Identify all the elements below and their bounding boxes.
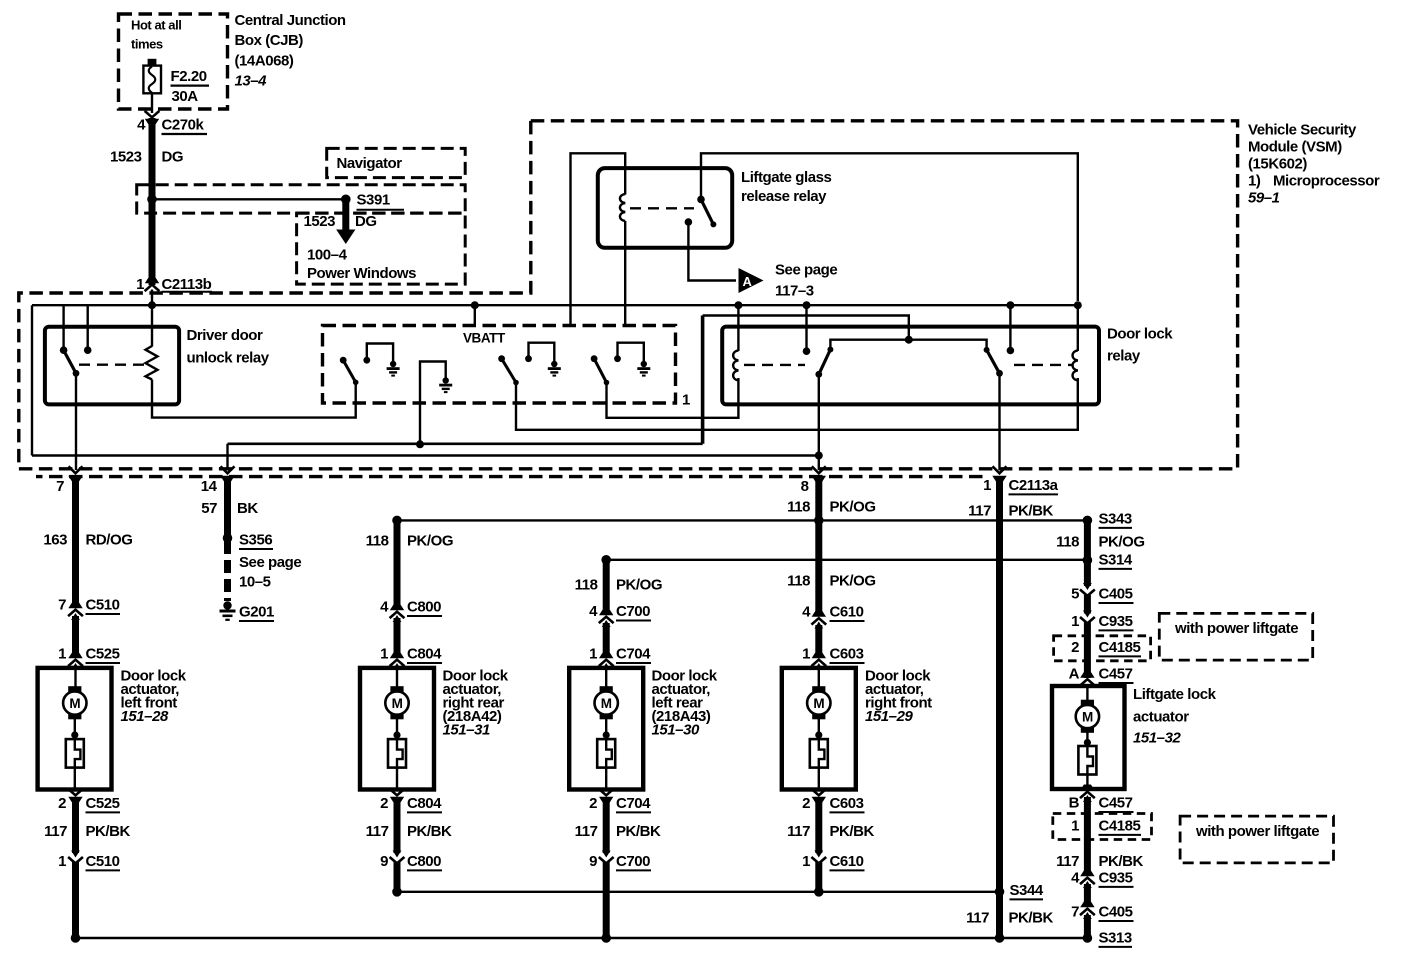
svg-text:A: A	[743, 274, 753, 289]
node common contact	[685, 218, 693, 226]
node junction blade link	[905, 336, 913, 344]
svg-text:PK/BK: PK/BK	[1099, 853, 1144, 870]
node junction col3 tap	[601, 555, 611, 565]
wire 57 BK	[224, 479, 231, 536]
svg-text:C804: C804	[407, 795, 442, 812]
svg-text:9: 9	[589, 853, 597, 870]
svg-text:C935: C935	[1099, 613, 1133, 630]
motor M right rear	[385, 686, 408, 719]
svg-text:C2113b: C2113b	[162, 276, 212, 293]
coil of liftgate relay	[620, 194, 625, 221]
actuator box liftgate	[1052, 686, 1125, 789]
svg-text:1: 1	[380, 646, 388, 663]
svg-text:DG: DG	[355, 213, 377, 230]
svg-text:Power Windows: Power Windows	[307, 265, 416, 282]
svg-text:1: 1	[802, 646, 810, 663]
svg-text:S343: S343	[1099, 511, 1132, 528]
pin 14 exit arrow	[220, 466, 234, 481]
motor M left rear	[595, 686, 618, 719]
wire blade top link	[830, 340, 986, 350]
wire internal bus line B	[32, 454, 819, 456]
svg-text:2: 2	[1071, 639, 1079, 656]
svg-text:C610: C610	[830, 853, 864, 870]
wire breaker to box bottom	[605, 768, 607, 788]
dashed option box lower	[297, 213, 466, 284]
svg-text:118: 118	[787, 499, 810, 516]
svg-text:117: 117	[1056, 853, 1079, 870]
relay Liftgate glass release relay box	[598, 168, 732, 248]
svg-text:151–29: 151–29	[865, 708, 913, 725]
svg-text:C525: C525	[86, 795, 120, 812]
ground symbol 3	[637, 361, 650, 377]
label with power liftgate upper	[1159, 613, 1312, 660]
node junction mid return bus	[392, 887, 402, 897]
svg-text:C4185: C4185	[1099, 818, 1141, 835]
ground hook 3	[614, 343, 644, 362]
motor M right front	[807, 686, 830, 719]
svg-text:59–1: 59–1	[1248, 190, 1280, 207]
svg-text:8: 8	[801, 478, 809, 495]
svg-text:117: 117	[44, 823, 67, 840]
node junction on bus A	[1074, 301, 1082, 309]
svg-text:1: 1	[802, 853, 810, 870]
wire C405 to C935	[1084, 595, 1091, 614]
svg-text:PK/BK: PK/BK	[1009, 910, 1054, 927]
dashed option box upper	[137, 185, 466, 213]
wire into VSM to relay coil	[151, 290, 153, 347]
fuse F2.20 30A	[143, 59, 161, 94]
label Central Junction Box (CJB) (14A068) 13-4	[235, 12, 346, 90]
svg-text:1: 1	[589, 646, 597, 663]
svg-text:14: 14	[201, 478, 218, 495]
switch blade of driver relay	[64, 350, 76, 373]
wire coil bottom to VBATT	[624, 221, 626, 326]
svg-text:B: B	[1069, 795, 1080, 812]
wire S314 to C405	[1084, 560, 1091, 586]
wire common contact to page arrow	[688, 222, 736, 281]
motor M left front	[63, 686, 86, 719]
wire right stub contact	[1009, 305, 1011, 350]
svg-text:4: 4	[380, 599, 389, 616]
svg-text:PK/OG: PK/OG	[830, 573, 876, 590]
connector C804 lower	[390, 789, 405, 803]
wire VBATT switch 2 to door relay right coil	[516, 378, 1078, 430]
svg-text:1: 1	[58, 646, 66, 663]
coil left of door relay	[733, 350, 738, 380]
svg-text:C510: C510	[86, 597, 120, 614]
splice S313	[1083, 933, 1093, 943]
label Vehicle Security Module (VSM) (15K602) 1) Microprocessor 59-1	[1248, 122, 1380, 207]
svg-text:151–32: 151–32	[1133, 730, 1181, 747]
svg-text:57: 57	[201, 500, 217, 517]
wire breaker to box bottom	[1086, 775, 1088, 788]
wire 118 PK/OG col3	[603, 560, 610, 614]
svg-text:BK: BK	[237, 500, 258, 517]
svg-text:S313: S313	[1099, 930, 1132, 947]
wire 117 PK/BK col4	[815, 797, 822, 853]
svg-text:actuator: actuator	[1133, 709, 1189, 726]
relay Door lock relay box	[722, 327, 1099, 405]
wire unlock feed riser	[703, 316, 909, 340]
wire to return bus	[72, 862, 79, 938]
svg-text:1523: 1523	[110, 149, 142, 166]
svg-text:VBATT: VBATT	[463, 331, 506, 346]
svg-text:117: 117	[575, 823, 598, 840]
wire motor to breaker	[396, 717, 398, 739]
wire C935 to C457	[1084, 622, 1091, 678]
wire ground bus to pin 14	[228, 442, 703, 445]
connector C603 lower	[811, 789, 826, 803]
connector C603	[811, 653, 826, 671]
svg-text:G201: G201	[239, 604, 274, 621]
Navigator dashed box	[327, 148, 466, 177]
svg-text:C804: C804	[407, 646, 442, 663]
splice S391	[341, 195, 351, 205]
svg-text:Navigator: Navigator	[337, 155, 403, 172]
svg-text:118: 118	[366, 533, 389, 550]
wire lock feed rail lower	[606, 559, 1087, 561]
node stub contact	[803, 347, 811, 355]
motor M liftgate	[1076, 700, 1099, 733]
wire contact stub 2	[86, 305, 88, 350]
svg-text:5: 5	[1071, 586, 1079, 603]
wire to mid return bus	[815, 862, 822, 892]
wire relay switch to right coil feed	[701, 153, 1078, 301]
svg-text:Central Junction: Central Junction	[235, 12, 346, 29]
wire VBATT switch 3 to door relay left coil	[607, 378, 739, 418]
svg-text:PK/BK: PK/BK	[830, 823, 875, 840]
svg-text:C525: C525	[86, 646, 120, 663]
node stub contact	[1007, 347, 1015, 355]
node junction VBATT stub	[471, 301, 479, 309]
VBATT dashed box	[323, 326, 676, 404]
svg-text:C405: C405	[1099, 904, 1133, 921]
connector C270k	[145, 111, 160, 125]
svg-text:117–3: 117–3	[775, 283, 814, 300]
node contacts of driver relay switch	[60, 346, 68, 354]
switch 1 in VBATT	[340, 357, 359, 385]
svg-text:Liftgate glass: Liftgate glass	[741, 169, 831, 186]
connector C405	[1080, 583, 1095, 596]
svg-text:C270k: C270k	[162, 117, 205, 134]
svg-text:C603: C603	[830, 646, 864, 663]
wire contact stub 1	[62, 305, 64, 350]
wire C700 to C704	[603, 623, 610, 657]
wire stub to VBATT box	[474, 305, 476, 325]
wire lock feed rail upper	[397, 519, 1087, 521]
svg-text:1: 1	[136, 276, 144, 293]
svg-text:2: 2	[58, 795, 66, 812]
svg-text:Module (VSM): Module (VSM)	[1248, 139, 1342, 156]
svg-text:PK/OG: PK/OG	[1099, 534, 1145, 551]
svg-text:Door lock: Door lock	[1107, 326, 1173, 343]
svg-text:See page: See page	[775, 262, 837, 279]
svg-text:release relay: release relay	[741, 188, 827, 205]
wire 163 RD/OG	[72, 479, 79, 607]
wire pin 1 drop	[998, 373, 1000, 470]
node junction at S391 tap	[147, 195, 157, 205]
wire 118 PK/OG liftgate	[1084, 520, 1091, 560]
VSM lower dashed border second row	[36, 475, 988, 478]
svg-text:S391: S391	[357, 192, 390, 209]
wire C510 to C525	[72, 616, 79, 657]
wire C610 to C603	[815, 625, 822, 657]
svg-text:117: 117	[966, 910, 989, 927]
node junction on bus A	[803, 301, 811, 309]
node junction on bus A	[1006, 301, 1014, 309]
svg-text:4: 4	[1071, 870, 1080, 887]
node junction bus B to pin 8	[815, 452, 823, 460]
svg-text:117: 117	[366, 823, 389, 840]
actuator box right rear	[360, 668, 434, 790]
circuit breaker left front	[66, 739, 84, 768]
svg-text:163: 163	[43, 532, 67, 549]
splice S344	[995, 887, 1005, 897]
svg-text:C610: C610	[830, 604, 864, 621]
svg-text:2: 2	[589, 795, 597, 812]
connector C525	[68, 653, 83, 671]
wire breaker to box bottom	[74, 768, 76, 788]
resistor coil of driver relay	[146, 346, 158, 380]
wire to splice S313	[1084, 915, 1091, 938]
wire left coil top	[737, 305, 739, 351]
coil right of door relay	[1073, 350, 1078, 380]
svg-text:7: 7	[1071, 904, 1079, 921]
wire right coil top	[1077, 305, 1079, 351]
svg-text:2: 2	[380, 795, 388, 812]
wire 117 PK/BK	[72, 797, 79, 853]
svg-text:C457: C457	[1099, 666, 1133, 683]
circuit breaker right rear	[388, 739, 406, 768]
label with power liftgate lower	[1180, 816, 1333, 863]
pin 7 exit arrow	[68, 466, 82, 481]
label Door lock actuator right rear (218A42) 151-31	[443, 668, 509, 739]
svg-text:100–4: 100–4	[307, 247, 348, 264]
Vehicle Security Module dashed outline	[19, 121, 1238, 469]
splice S314	[1083, 555, 1093, 565]
node junction lock distribution	[814, 516, 824, 526]
wire 117 PK/BK trunk	[996, 479, 1003, 938]
ground symbol 1	[387, 361, 400, 377]
svg-text:See page: See page	[239, 554, 301, 571]
svg-text:times: times	[131, 37, 163, 52]
svg-text:4: 4	[589, 603, 598, 620]
svg-text:S314: S314	[1099, 552, 1133, 569]
connector C800 lower	[390, 851, 405, 864]
svg-text:C800: C800	[407, 853, 441, 870]
svg-text:117: 117	[968, 503, 991, 520]
wire C800 to C804	[394, 618, 401, 657]
wire 118 PK/OG trunk	[815, 479, 822, 614]
wire internal bus line A	[32, 304, 1078, 306]
actuation dashed link	[630, 207, 694, 209]
connector C4185 dashed box lower	[1053, 814, 1152, 840]
wire motor to breaker	[818, 717, 820, 739]
node A page reference arrow	[739, 268, 764, 293]
connector C510 lower	[68, 851, 83, 864]
svg-text:C4185: C4185	[1099, 639, 1141, 656]
switch 3 in VBATT	[591, 355, 610, 385]
node junction trunk to return bus	[995, 933, 1005, 943]
svg-text:4: 4	[137, 117, 146, 134]
svg-text:9: 9	[380, 853, 388, 870]
wire motor to breaker	[1086, 731, 1088, 747]
svg-text:DG: DG	[162, 149, 184, 166]
connector C800	[390, 605, 405, 623]
svg-text:C700: C700	[616, 603, 650, 620]
wire fuse to connector C270k	[151, 93, 153, 113]
connector C405 lower	[1080, 902, 1095, 920]
label Door lock actuator left rear (218A43) 151-30	[652, 668, 718, 739]
node junction mid return bus	[814, 887, 824, 897]
label Liftgate lock actuator 151-32	[1133, 686, 1217, 747]
wire coil bottom to VBATT switch 1	[152, 380, 356, 418]
label Door lock actuator left front 151-28	[121, 668, 187, 726]
svg-text:13–4: 13–4	[235, 72, 268, 89]
svg-text:2: 2	[802, 795, 810, 812]
wire bold drop to ground bus	[701, 316, 705, 444]
node switch fixed contact	[697, 196, 705, 204]
svg-text:C510: C510	[86, 853, 120, 870]
node junction return bus	[601, 933, 611, 943]
connector C610 lower	[811, 851, 826, 864]
svg-text:PK/BK: PK/BK	[1009, 503, 1054, 520]
connector C525 lower	[68, 789, 83, 803]
svg-text:S344: S344	[1010, 882, 1044, 899]
svg-text:with power liftgate: with power liftgate	[1195, 823, 1319, 840]
wire into actuator	[74, 665, 76, 687]
wire into actuator	[605, 665, 607, 687]
node junction col2 tap	[392, 516, 402, 526]
switch blade of liftgate relay	[701, 199, 713, 224]
svg-text:1: 1	[682, 392, 690, 409]
svg-text:118: 118	[575, 577, 598, 594]
Central Junction Box dashed outline	[119, 14, 228, 109]
svg-text:(14A068): (14A068)	[235, 52, 294, 69]
connector C457 pin A	[1080, 672, 1095, 686]
svg-text:relay: relay	[1107, 348, 1141, 365]
svg-text:10–5: 10–5	[239, 574, 271, 591]
svg-text:30A: 30A	[172, 88, 199, 105]
connector C804	[390, 653, 405, 671]
circuit breaker left rear	[597, 739, 615, 768]
connector C457 pin B	[1080, 785, 1095, 803]
svg-text:PK/OG: PK/OG	[616, 577, 662, 594]
wire to pin 7	[75, 373, 77, 470]
wire breaker to box bottom	[818, 768, 820, 788]
wire 117 PK/BK col3	[603, 797, 610, 853]
svg-text:118: 118	[1056, 534, 1079, 551]
svg-text:C457: C457	[1099, 795, 1133, 812]
svg-text:Hot at all: Hot at all	[131, 18, 181, 33]
connector C2113b	[145, 278, 160, 292]
svg-text:F2.20: F2.20	[171, 68, 207, 85]
pin 1 exit arrow	[992, 466, 1006, 481]
wire 118 PK/OG col2	[394, 520, 401, 609]
svg-text:1523: 1523	[304, 213, 336, 230]
wire into actuator	[818, 665, 820, 687]
wire motor to breaker	[74, 717, 76, 739]
svg-text:PK/BK: PK/BK	[86, 823, 131, 840]
wire internal left drop	[31, 305, 33, 455]
switch 2 in VBATT	[498, 355, 519, 385]
connector C935 lower	[1080, 871, 1095, 889]
svg-text:1: 1	[58, 853, 66, 870]
actuation dashed link right	[1014, 364, 1072, 366]
svg-text:1: 1	[1071, 613, 1079, 630]
svg-text:1: 1	[1071, 818, 1079, 835]
splice S356	[223, 533, 233, 543]
svg-text:(15K602): (15K602)	[1248, 156, 1307, 173]
svg-text:A: A	[1069, 666, 1080, 683]
ground G201	[220, 601, 236, 621]
wire return bus	[76, 937, 1088, 939]
svg-text:1): 1)	[1248, 173, 1261, 190]
ground symbol module	[439, 377, 452, 393]
svg-text:117: 117	[787, 823, 810, 840]
svg-text:C700: C700	[616, 853, 650, 870]
svg-text:151–30: 151–30	[652, 722, 700, 739]
svg-text:Driver door: Driver door	[187, 327, 264, 344]
svg-text:PK/BK: PK/BK	[407, 823, 452, 840]
wire into actuator	[1086, 684, 1088, 701]
connector C700 lower	[599, 851, 614, 864]
wire breaker to box bottom	[396, 768, 398, 788]
svg-text:7: 7	[58, 597, 66, 614]
svg-text:Microprocessor: Microprocessor	[1273, 173, 1380, 190]
svg-text:4: 4	[802, 604, 811, 621]
svg-text:PK/OG: PK/OG	[830, 499, 876, 516]
wire to splice S391	[152, 198, 346, 200]
switch blade left of door relay	[815, 347, 833, 378]
svg-text:PK/OG: PK/OG	[407, 533, 453, 550]
wire C935 to C405 lower	[1084, 884, 1091, 906]
actuation dashed link	[79, 364, 147, 366]
svg-text:C935: C935	[1099, 870, 1133, 887]
actuation dashed link left	[744, 364, 805, 366]
ground hook 2	[525, 343, 554, 362]
wire to return bus	[603, 862, 610, 938]
svg-text:C704: C704	[616, 646, 651, 663]
actuator box right front	[782, 668, 856, 790]
wire 1523 DG power feed	[149, 118, 156, 285]
svg-text:with power liftgate: with power liftgate	[1174, 620, 1298, 637]
ground symbol 2	[548, 361, 561, 377]
relay Driver door unlock relay box	[45, 327, 179, 405]
wire left stub contact	[805, 305, 807, 351]
connector C610	[811, 611, 826, 629]
wire motor to breaker	[605, 717, 607, 739]
wire 117 PK/BK col2	[394, 797, 401, 853]
svg-text:118: 118	[787, 573, 810, 590]
label Door lock actuator right front 151-29	[865, 668, 932, 726]
svg-text:S356: S356	[239, 532, 272, 549]
svg-text:C800: C800	[407, 599, 441, 616]
svg-text:C704: C704	[616, 795, 651, 812]
svg-text:PK/BK: PK/BK	[616, 823, 661, 840]
node junction return bus	[71, 933, 81, 943]
svg-text:151–31: 151–31	[443, 722, 490, 739]
node junction main feed on bus A	[148, 301, 156, 309]
circuit breaker liftgate	[1078, 746, 1096, 775]
connector C704	[599, 653, 614, 671]
svg-text:unlock relay: unlock relay	[187, 350, 270, 367]
wire dashed to G201	[224, 541, 231, 601]
svg-text:C603: C603	[830, 795, 864, 812]
svg-text:C2113a: C2113a	[1009, 477, 1059, 494]
wire mid return bus	[397, 891, 1000, 893]
wire VBATT to relay coil top hook	[571, 153, 626, 325]
